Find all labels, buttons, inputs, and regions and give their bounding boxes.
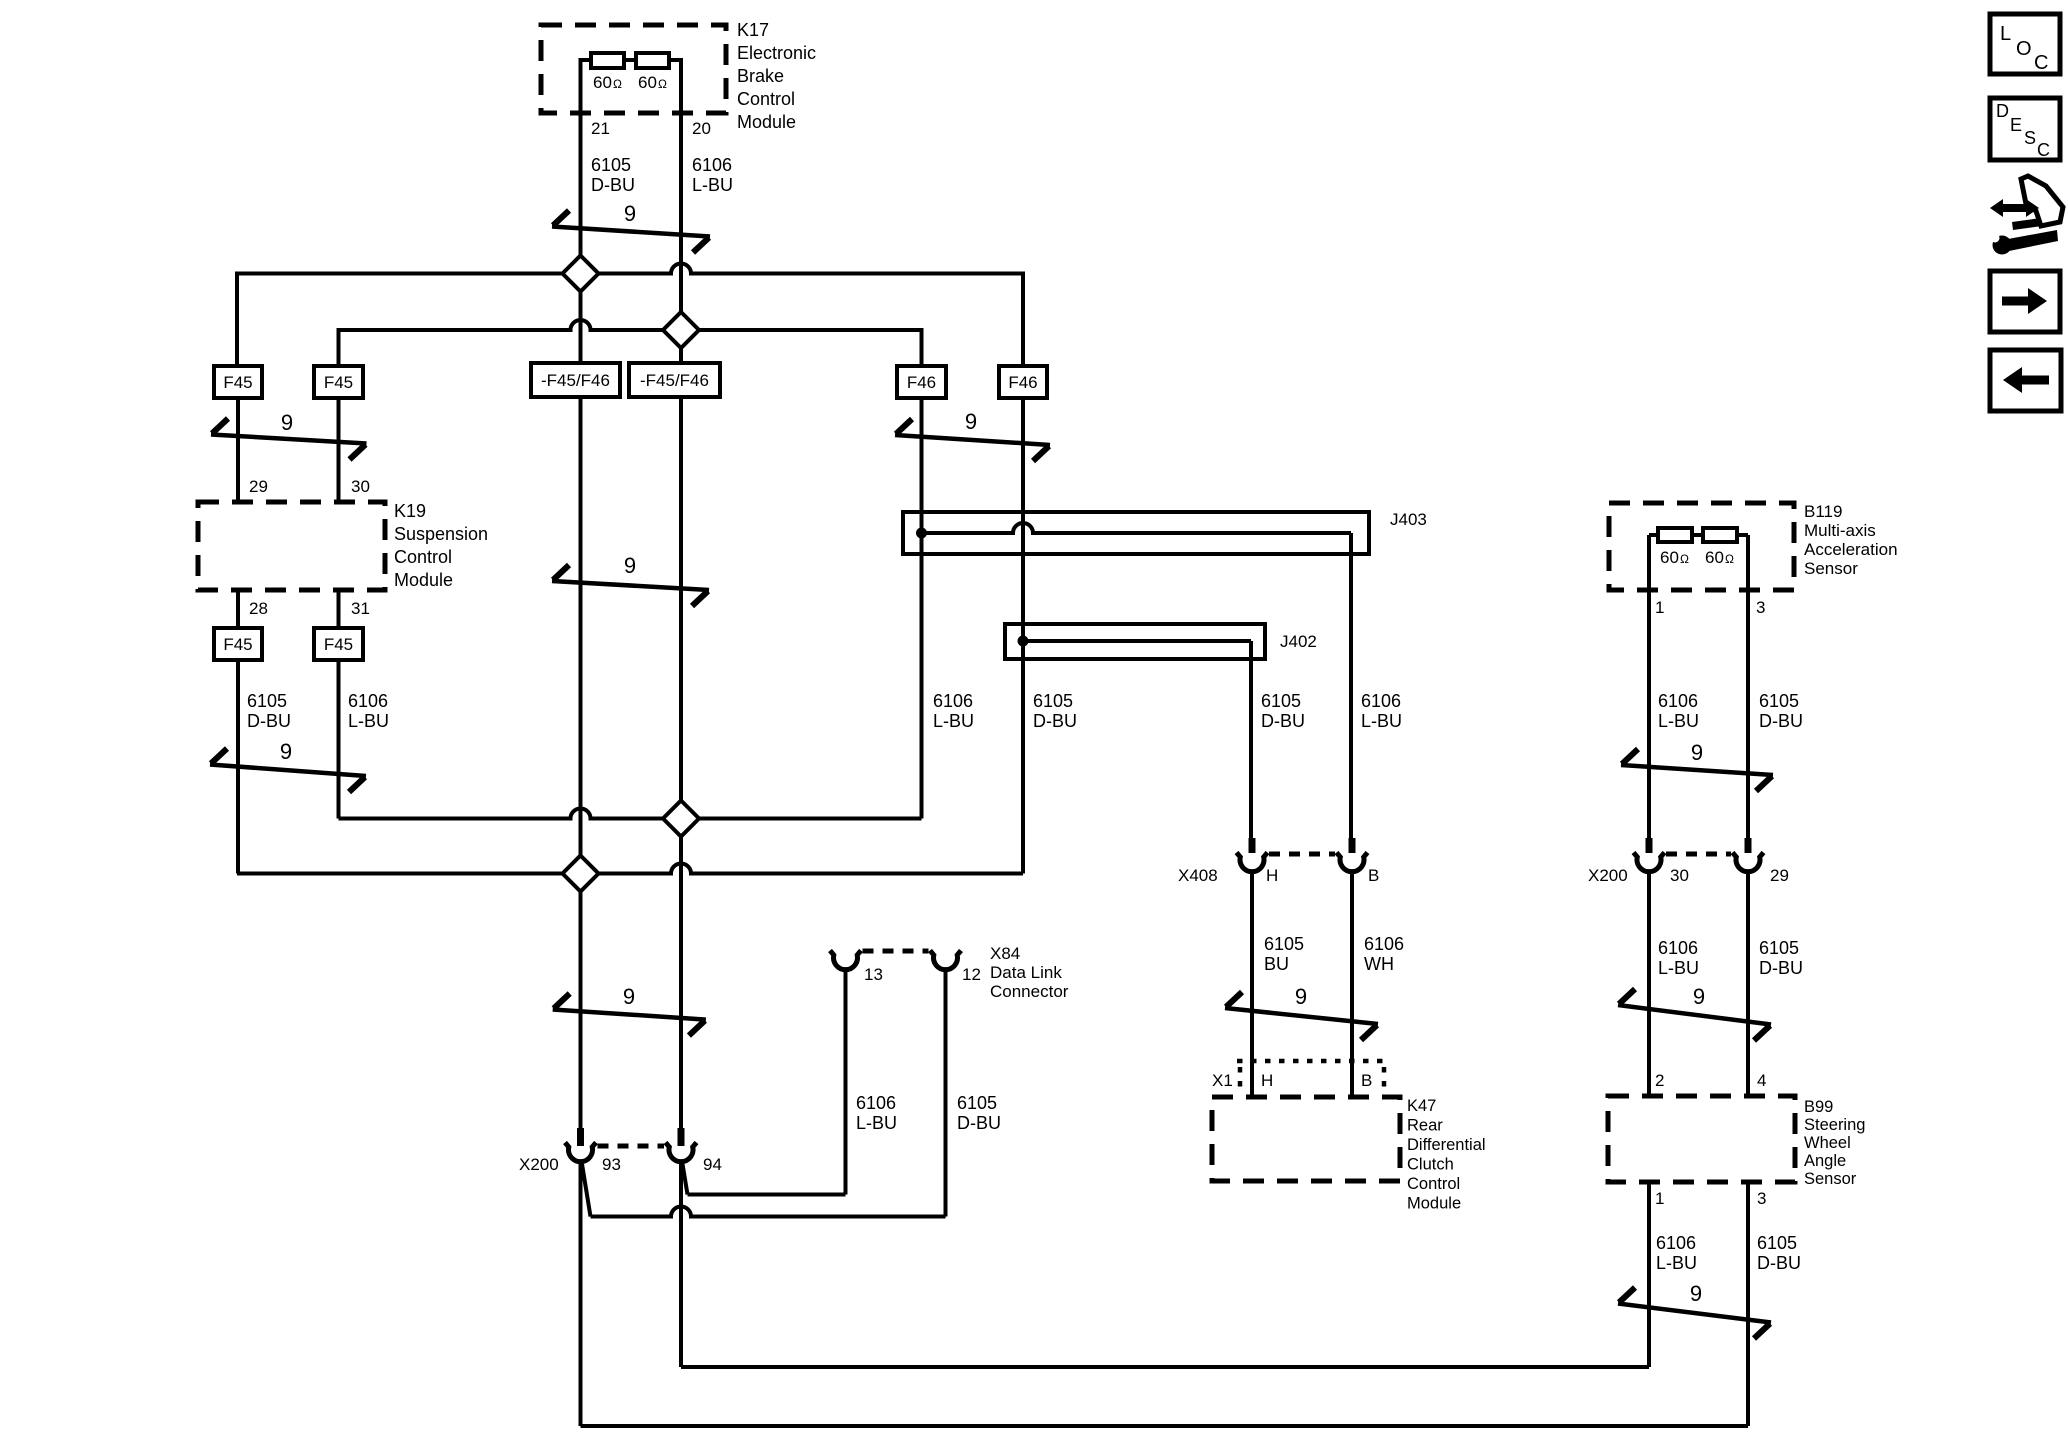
wire 6105 drop H1 to F46 [1021,272,1025,367]
resistor 60 ohm right in K17 [636,53,669,68]
wire 6105 left drop to F45 [235,272,239,367]
svg-text:6105: 6105 [1757,1233,1797,1253]
label X200 pin 30 [1670,866,1689,885]
wire 6105 X200.29 to B99.4 [1746,873,1750,1096]
connector X200 pin 94 [666,1128,697,1162]
svg-text:D-BU: D-BU [247,711,291,731]
wire J403 internal 6106 tap [922,523,1352,838]
svg-text:13: 13 [864,965,883,984]
svg-text:L-BU: L-BU [1658,958,1699,978]
label K19 Suspension Control Module [394,501,488,590]
svg-text:30: 30 [1670,866,1689,885]
svg-text:9: 9 [1690,1281,1702,1306]
label X1 pin B [1361,1071,1372,1090]
connector X84 dashed link [863,949,929,954]
svg-text:D-BU: D-BU [1033,711,1077,731]
pin 21 label K17 [591,119,610,138]
svg-text:B: B [1361,1071,1372,1090]
twisted-pair symbol 9 below B119 [1621,740,1773,791]
svg-text:6106: 6106 [1361,691,1401,711]
icon arrow-right box [1990,271,2060,332]
label B99 Steering Wheel Angle Sensor [1804,1098,1865,1188]
pin 30 label K19 [351,477,370,496]
svg-text:9: 9 [1693,984,1705,1009]
connector X200 right dashed link [1666,852,1731,857]
twisted-pair symbol 9 center [552,553,709,606]
connector X200 left dashed link [598,1144,665,1149]
svg-text:K47: K47 [1407,1097,1436,1115]
resistor 60 ohm left in B119 [1658,528,1692,542]
svg-text:X84: X84 [990,944,1020,963]
svg-text:X200: X200 [519,1155,559,1174]
svg-text:L: L [2000,23,2011,45]
module K19 Suspension Control Module (dashed box) [198,502,385,590]
wire 6106 center vertical from K17 pin 20 [679,58,683,1128]
label K17 Electronic Brake Control Module [737,20,816,132]
svg-text:Control: Control [737,89,795,109]
module K17 Electronic Brake Control Module (dashed box) [541,25,726,113]
svg-text:H: H [1261,1071,1273,1090]
label X408 pin H [1266,866,1278,885]
svg-text:6105: 6105 [957,1093,997,1113]
wire 6106 B99.1 down [1647,1182,1651,1367]
node junction diamond 6105 lower [563,856,599,892]
label 60 ohm right [638,73,667,92]
svg-text:Control: Control [394,547,452,567]
label J402 [1280,632,1317,651]
svg-text:60: 60 [1705,548,1724,567]
label X200 right [1588,866,1628,885]
svg-text:B: B [1368,866,1379,885]
svg-text:6105: 6105 [1261,691,1301,711]
svg-text:6105: 6105 [591,155,631,175]
svg-text:9: 9 [1691,740,1703,765]
label X408 pin B [1368,866,1379,885]
label 60 ohm left [593,73,622,92]
label X84 pin 12 [962,965,981,984]
svg-text:Control: Control [1407,1175,1460,1193]
pin 1 label B99 [1655,1189,1664,1208]
svg-text:F45: F45 [223,373,252,392]
label circuit 6106 L-BU (to B99) [1658,938,1699,978]
wire 6105 branch slant to DLC bus [582,1164,591,1217]
label circuit 6106 L-BU (X84) [856,1093,897,1133]
wire K17 resistor links [581,58,682,62]
svg-text:6106: 6106 [856,1093,896,1113]
label circuit 6105 D-BU (B119) [1759,691,1803,731]
svg-text:Electronic: Electronic [737,43,816,63]
label X200 pin 94 [703,1155,722,1174]
pin 3 label B99 [1757,1189,1766,1208]
svg-text:Module: Module [1407,1195,1461,1213]
wire 6106 F46 vertical down [920,398,924,819]
svg-text:28: 28 [249,599,268,618]
fuse box F45 lower-left-2 [314,628,363,660]
svg-text:Connector: Connector [990,982,1069,1001]
svg-text:D-BU: D-BU [1759,958,1803,978]
svg-text:6106: 6106 [1658,691,1698,711]
label circuit 6105 D-BU (K19 pin 28) [247,691,291,731]
splice J402 box [1005,624,1265,659]
node junction dot J402 on 6105 [1018,636,1029,647]
svg-text:K17: K17 [737,20,769,40]
wire 6106 X200.30 to B99.2 [1647,873,1651,1096]
svg-text:9: 9 [623,984,635,1009]
wire bus 6106 to X84 pin 13 [688,1193,846,1197]
twisted-pair symbol 9 below B99 [1618,1281,1771,1339]
svg-text:Ω: Ω [658,77,667,91]
svg-text:6106: 6106 [1656,1233,1696,1253]
connector X84 pin 12 [930,951,961,970]
svg-text:Acceleration: Acceleration [1804,540,1898,559]
connector X408 dashed link [1269,852,1335,857]
pin 31 label K19 [351,599,370,618]
wire 6105 D-BU B119.3 down [1746,535,1750,838]
fuse box F46 left [897,366,946,398]
wire 6106 L-BU B119.1 down [1647,535,1651,838]
svg-text:X200: X200 [1588,866,1628,885]
svg-text:6106: 6106 [1364,934,1404,954]
svg-text:Suspension: Suspension [394,524,488,544]
svg-text:3: 3 [1757,1189,1766,1208]
wire 6105 bottom horizontal to B99 branch [581,1424,1749,1428]
label circuit 6105 D-BU (F46 branch) [1033,691,1077,731]
svg-text:Clutch: Clutch [1407,1156,1454,1174]
svg-text:H: H [1266,866,1278,885]
svg-text:9: 9 [1295,984,1307,1009]
wire B119 resistor links [1649,533,1748,537]
svg-text:6106: 6106 [933,691,973,711]
label X84 pin 13 [864,965,883,984]
svg-text:6106: 6106 [1658,938,1698,958]
svg-text:93: 93 [602,1155,621,1174]
svg-text:Multi-axis: Multi-axis [1804,521,1876,540]
wire 6105 F46 vertical down [1021,398,1025,874]
label circuit 6106 L-BU (B119) [1658,691,1699,731]
svg-text:6105: 6105 [1759,691,1799,711]
wire 6106 below X200 vertical [679,1164,683,1367]
node junction diamond 6106 lower [663,801,699,837]
svg-text:29: 29 [249,477,268,496]
twisted-pair symbol 9 above K19 [211,410,367,460]
svg-text:-F45/F46: -F45/F46 [640,371,709,390]
svg-text:Module: Module [394,570,453,590]
svg-text:B99: B99 [1804,1098,1833,1116]
svg-text:9: 9 [281,410,293,435]
label circuit 6106 L-BU (K17 pin 20) [692,155,733,195]
pin 29 label K19 [249,477,268,496]
svg-text:F46: F46 [1008,373,1037,392]
fuse box F45 upper-left-2 [314,366,363,398]
svg-text:D-BU: D-BU [957,1113,1001,1133]
node junction diamond 6106 upper [663,312,699,348]
label circuit 6106 WH [1364,934,1404,974]
svg-text:6105: 6105 [1033,691,1073,711]
twisted-pair symbol 9 above K47 [1225,984,1378,1040]
pin 3 label B119 [1756,598,1765,617]
node junction diamond 6105 upper [563,256,599,292]
wire 6106 drop H2 to F46 [920,328,924,366]
svg-text:L-BU: L-BU [1361,711,1402,731]
svg-text:BU: BU [1264,954,1289,974]
label circuit 6105 D-BU (J402 tap) [1261,691,1305,731]
svg-text:2: 2 [1655,1071,1664,1090]
svg-text:Steering: Steering [1804,1116,1865,1134]
svg-text:60: 60 [1660,548,1679,567]
label J403 [1390,510,1427,529]
svg-text:D-BU: D-BU [1759,711,1803,731]
wire 6106 L-BU X84.13 down [844,971,848,1195]
svg-text:D-BU: D-BU [1757,1253,1801,1273]
wire bus 6106 upper horizontal [339,320,922,330]
svg-text:9: 9 [280,739,292,764]
svg-text:D-BU: D-BU [1261,711,1305,731]
svg-text:60: 60 [593,73,612,92]
svg-text:F45: F45 [324,373,353,392]
pin 28 label K19 [249,599,268,618]
wire 6106 left drop to F45 [337,328,341,366]
wire bus 6105 upper horizontal [237,264,1023,274]
wire K19 pin 28 to F45 [236,590,240,628]
svg-text:D-BU: D-BU [591,175,635,195]
icon LOC box [1990,14,2060,74]
fuse box F45 lower-left [214,628,262,660]
label X408 [1178,866,1218,885]
svg-text:J402: J402 [1280,632,1317,651]
svg-text:L-BU: L-BU [348,711,389,731]
pin 2 label B99 [1655,1071,1664,1090]
wire J402 internal 6105 tap [1023,641,1251,838]
svg-text:J403: J403 [1390,510,1427,529]
wire bus 6106 lower horizontal [339,809,922,819]
svg-text:S: S [2024,128,2036,148]
connector X408 pin H [1237,838,1268,872]
svg-text:L-BU: L-BU [1658,711,1699,731]
svg-text:Differential: Differential [1407,1136,1486,1154]
svg-text:20: 20 [692,119,711,138]
svg-text:L-BU: L-BU [692,175,733,195]
svg-text:12: 12 [962,965,981,984]
svg-text:6106: 6106 [348,691,388,711]
svg-text:D: D [1996,101,2009,121]
label circuit 6105 D-BU (K17 pin 21) [591,155,635,195]
wire 6105 B99.3 down [1746,1182,1750,1426]
fuse box -F45/F46 left [531,363,620,397]
label circuit 6105 D-BU (B99 out) [1757,1233,1801,1273]
resistor 60 ohm left in K17 [591,53,624,68]
svg-text:9: 9 [624,201,636,226]
wire bus 6105 to X84 pin 12 [591,1207,946,1217]
wire bus 6105 lower horizontal [237,864,1023,874]
connector X200 pin 29 [1733,838,1764,872]
svg-text:-F45/F46: -F45/F46 [541,371,610,390]
label circuit 6106 L-BU (K19 pin 31) [348,691,389,731]
connector X408 pin B [1337,838,1368,872]
label 60 ohm right B119 [1705,548,1734,567]
node junction dot J403 on 6106 [916,528,927,539]
wire 6106 left down to lower bus [337,660,341,819]
module B119 Multi-axis Acceleration Sensor (dashed box) [1609,503,1794,590]
wire 6106 WH X408.B down [1350,873,1354,1097]
label X200 pin 93 [602,1155,621,1174]
svg-text:C: C [2037,140,2050,160]
connector X200 pin 93 [565,1128,596,1162]
svg-text:F46: F46 [907,373,936,392]
svg-text:60: 60 [638,73,657,92]
svg-text:Sensor: Sensor [1804,1170,1857,1188]
label X1 [1212,1071,1233,1090]
label X84 Data Link Connector [990,944,1069,1001]
label circuit 6105 D-BU (X84) [957,1093,1001,1133]
svg-text:21: 21 [591,119,610,138]
svg-text:6105: 6105 [1759,938,1799,958]
wire 6105 center vertical from K17 pin 21 [579,58,583,1128]
icon wiring-repair (double arrow, flag outline, wrench) [1990,176,2063,255]
svg-text:L-BU: L-BU [1656,1253,1697,1273]
splice J403 box [903,512,1369,554]
svg-text:L-BU: L-BU [933,711,974,731]
connector X84 pin 13 [830,951,861,970]
svg-text:Rear: Rear [1407,1117,1443,1135]
svg-text:31: 31 [351,599,370,618]
label X200 pin 29 [1770,866,1789,885]
label circuit 6105 D-BU (to B99) [1759,938,1803,978]
svg-text:F45: F45 [324,635,353,654]
svg-text:Ω: Ω [1680,552,1689,566]
resistor 60 ohm right in B119 [1703,528,1737,542]
wire 6106 branch slant to DLC bus [683,1164,688,1195]
svg-text:Sensor: Sensor [1804,559,1858,578]
svg-text:Angle: Angle [1804,1152,1846,1170]
label circuit 6105 BU [1264,934,1304,974]
label K47 Rear Differential Clutch Control Module [1407,1097,1486,1213]
fuse box F45 upper-left [214,366,262,398]
icon arrow-left box [1990,350,2061,411]
twisted-pair symbol 9 above X200 [553,984,706,1036]
svg-text:Data Link: Data Link [990,963,1062,982]
svg-text:K19: K19 [394,501,426,521]
svg-text:1: 1 [1655,1189,1664,1208]
svg-text:O: O [2016,38,2032,60]
svg-text:WH: WH [1364,954,1394,974]
svg-text:9: 9 [624,553,636,578]
svg-text:1: 1 [1655,598,1664,617]
twisted-pair symbol 9 below K17 [552,201,710,253]
fuse box -F45/F46 right [629,363,720,397]
svg-text:X408: X408 [1178,866,1218,885]
svg-text:C: C [2034,52,2048,74]
svg-text:Wheel: Wheel [1804,1134,1851,1152]
svg-text:6105: 6105 [247,691,287,711]
svg-text:6105: 6105 [1264,934,1304,954]
fuse box F46 right [999,366,1047,398]
twisted-pair symbol 9 below K19 [210,739,366,792]
wire 6105 below X200 vertical [579,1164,583,1426]
svg-text:30: 30 [351,477,370,496]
svg-text:Ω: Ω [613,77,622,91]
svg-text:9: 9 [965,409,977,434]
pin 1 label B119 [1655,598,1664,617]
wire K19 pin 31 to F45 [337,590,341,628]
wire F45 to K19 pin 29 [236,398,240,502]
svg-text:Ω: Ω [1725,552,1734,566]
svg-text:6106: 6106 [692,155,732,175]
pin 20 label K17 [692,119,711,138]
wire F45 to K19 pin 30 [337,398,341,502]
label circuit 6106 L-BU (J403 tap) [1361,691,1402,731]
label circuit 6106 L-BU (B99 out) [1656,1233,1697,1273]
svg-text:Module: Module [737,112,796,132]
label B119 Multi-axis Acceleration Sensor [1804,502,1898,578]
wire 6106 bottom horizontal to B99 branch [681,1365,1649,1367]
wire 6105 BU X408.H down [1250,873,1254,1097]
svg-text:X1: X1 [1212,1071,1233,1090]
module B99 Steering Wheel Angle Sensor (dashed box) [1608,1096,1795,1182]
connector X200 pin 30 [1634,838,1665,872]
svg-text:4: 4 [1757,1071,1766,1090]
svg-text:L-BU: L-BU [856,1113,897,1133]
svg-text:94: 94 [703,1155,722,1174]
module K47 Rear Differential Clutch Control Module (dashed box) [1212,1097,1400,1181]
svg-text:F45: F45 [223,635,252,654]
label X1 pin H [1261,1071,1273,1090]
twisted-pair symbol 9 above B99 [1618,984,1771,1041]
pin 4 label B99 [1757,1071,1766,1090]
svg-text:Brake: Brake [737,66,784,86]
connector X1 dotted bracket [1237,1061,1384,1095]
svg-text:3: 3 [1756,598,1765,617]
twisted-pair symbol 9 below F46 [895,409,1050,461]
label circuit 6106 L-BU (F46 branch) [933,691,974,731]
svg-text:E: E [2010,115,2022,135]
icon DESC box [1990,98,2060,160]
label 60 ohm left B119 [1660,548,1689,567]
wire 6105 left down to lower bus [236,660,240,874]
svg-text:29: 29 [1770,866,1789,885]
svg-text:B119: B119 [1804,502,1842,521]
label X200 left [519,1155,559,1174]
wire 6105 D-BU X84.12 down [944,971,948,1217]
